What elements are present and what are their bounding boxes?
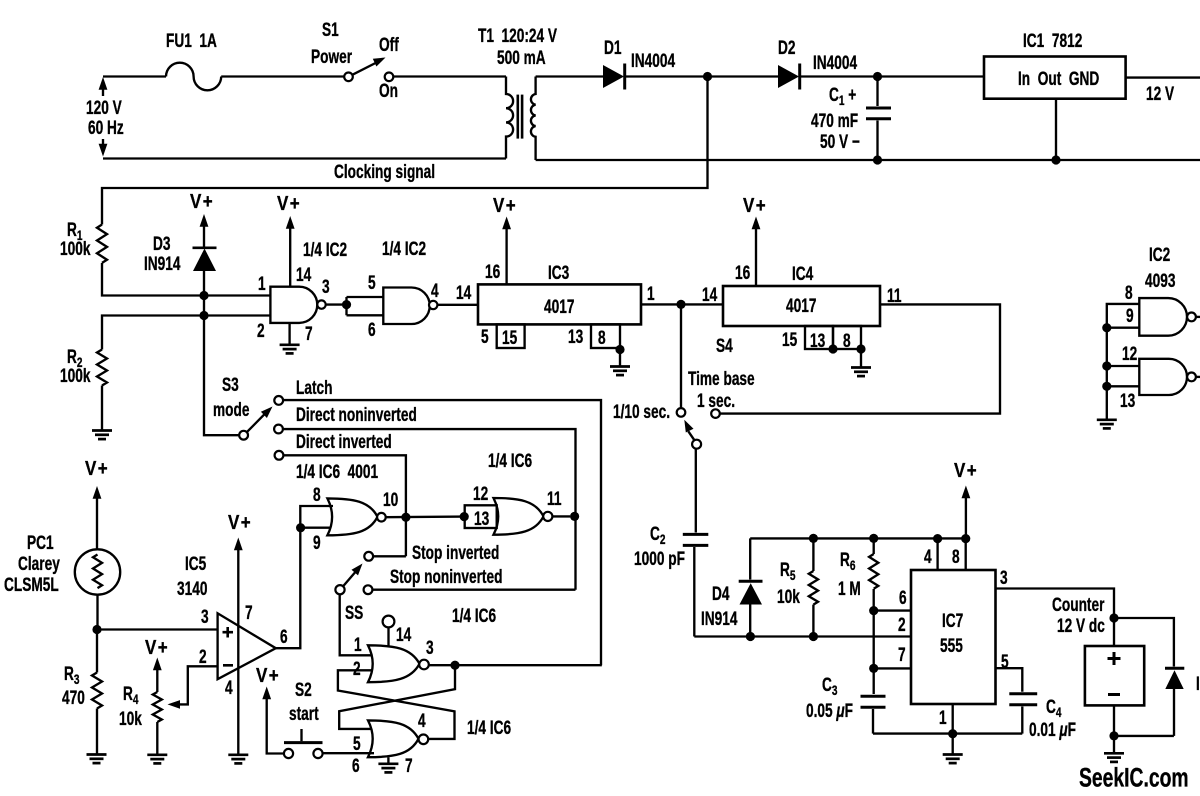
svg-text:3: 3 — [1000, 567, 1008, 589]
ground NAND1 pin7 — [280, 323, 300, 354]
node pin3 — [92, 625, 101, 634]
ground IC7 pin1 — [943, 755, 963, 764]
nand gate 1/4 IC2 second — [383, 288, 437, 325]
wire D3 anode to S3 — [204, 271, 239, 435]
svg-text:4017: 4017 — [786, 295, 816, 317]
svg-text:2: 2 — [353, 658, 361, 680]
svg-text:4: 4 — [431, 280, 439, 302]
switch S4 contact 1/10 — [677, 408, 686, 417]
IC6 pins 12 13 tie box — [465, 505, 497, 528]
svg-text:2: 2 — [257, 320, 265, 342]
svg-text:IC4: IC4 — [792, 263, 814, 285]
svg-text:FU1 1A: FU1 1A — [166, 30, 217, 52]
wire IC2 input bus to ground — [1107, 304, 1140, 419]
capacitor C3 — [861, 696, 886, 733]
svg-text:470: 470 — [62, 687, 85, 709]
wire pin2 rail — [694, 635, 911, 637]
svg-text:IN914: IN914 — [701, 608, 738, 630]
svg-text:4: 4 — [225, 677, 233, 699]
node NOR2 in — [460, 512, 469, 521]
svg-text:0.01 μF: 0.01 μF — [1029, 719, 1076, 741]
node pin1 — [948, 729, 957, 738]
svg-text:11: 11 — [547, 488, 561, 510]
svg-text:4093: 4093 — [1145, 270, 1175, 292]
ground counter — [1104, 753, 1124, 762]
node IC1 gnd — [1051, 155, 1060, 164]
wire diode bottom to counter bottom — [1114, 705, 1174, 752]
svg-text:3: 3 — [201, 606, 209, 628]
wire cross couple NOR4out to NOR3 in — [338, 670, 455, 739]
IC3 4017 box — [478, 284, 641, 324]
svg-text:D1: D1 — [604, 37, 621, 59]
svg-text:7: 7 — [245, 602, 253, 624]
node NOR1 pin9 — [296, 523, 305, 532]
ground IC2 — [1097, 420, 1117, 429]
transformer T1 primary — [506, 77, 513, 159]
svg-text:Clarey: Clarey — [18, 553, 60, 575]
node counter top — [1109, 613, 1118, 622]
wire S2 to NOR4 pin6 — [323, 752, 374, 754]
node C1 bottom — [873, 155, 882, 164]
svg-text:S2: S2 — [295, 679, 312, 701]
wire pin5 to C4 — [996, 668, 1023, 692]
svg-text:14: 14 — [702, 284, 718, 306]
node IC4 pin13 — [828, 344, 837, 353]
switch SS contact stop noninverted — [364, 585, 373, 594]
switch SS lever — [343, 564, 363, 587]
wire IC1 GND stem — [1055, 99, 1057, 160]
V+ arrow IC5 pin7 through to pin4 ground — [228, 538, 248, 764]
fuse FU1 — [166, 63, 221, 91]
svg-text:CLSM5L: CLSM5L — [4, 574, 59, 596]
svg-text:IC1 7812: IC1 7812 — [1023, 30, 1082, 52]
IC4 pin 8 box — [833, 326, 861, 349]
resistor R2 — [97, 350, 107, 386]
svg-text:7: 7 — [405, 755, 413, 777]
nor gate 1/4 IC6 pins 8 9 10 — [327, 498, 385, 535]
node counter bottom — [1109, 731, 1118, 740]
svg-text:Direct noninverted: Direct noninverted — [296, 404, 417, 426]
wire R1 to NAND pin1 — [102, 263, 270, 296]
node C1 top — [873, 72, 882, 81]
transformer T1 core — [516, 95, 519, 139]
svg-text:start: start — [289, 703, 319, 725]
svg-text:V +: V + — [85, 457, 108, 480]
wire pin8 stem — [965, 539, 967, 570]
IC3 pins 5 15 box — [497, 324, 525, 348]
node IC3 out — [676, 300, 685, 309]
node pin8 — [961, 534, 970, 543]
wire clocking signal — [102, 77, 708, 225]
wire opamp out to NOR1 inputs — [276, 506, 333, 648]
svg-text:D3: D3 — [153, 233, 170, 255]
photocell PC1 — [75, 549, 120, 594]
regulator IC1 7812 box — [984, 57, 1126, 99]
svg-text:S4: S4 — [716, 335, 733, 357]
switch S4 contact 1sec — [711, 409, 720, 418]
switch S3 contact direct noninverted — [274, 425, 283, 434]
svg-text:8: 8 — [1125, 282, 1133, 304]
ground R4 — [147, 755, 167, 764]
svg-text:On: On — [379, 80, 398, 102]
wire direct inverted line — [283, 455, 406, 556]
svg-text:IC2: IC2 — [1149, 244, 1170, 266]
capacitor C2 — [683, 449, 709, 637]
svg-text:Latch: Latch — [296, 377, 332, 399]
svg-text:In Out GND: In Out GND — [1018, 68, 1099, 90]
node D3 pin2 row — [199, 311, 208, 320]
svg-text:1/4 IC6: 1/4 IC6 — [488, 450, 532, 472]
svg-text:8: 8 — [843, 330, 851, 352]
svg-text:PC1: PC1 — [27, 532, 54, 554]
svg-text:1 M: 1 M — [838, 578, 861, 600]
opamp IC5 3140 — [218, 613, 276, 679]
svg-text:1: 1 — [258, 273, 266, 295]
node R6 top — [869, 534, 878, 543]
node IC4 pin8 — [856, 344, 865, 353]
ground R2 — [92, 431, 112, 440]
node pin7 — [869, 664, 878, 673]
switch SS pole — [335, 585, 344, 594]
wire to 1/10 sec contact — [680, 304, 682, 408]
wire fuse to S1 — [221, 75, 344, 77]
svg-text:14: 14 — [396, 624, 412, 646]
V+ arrow PC1 — [93, 486, 102, 550]
svg-text:5: 5 — [481, 326, 489, 348]
IC4 pins 15 13 box — [805, 326, 833, 349]
svg-text:IC3: IC3 — [548, 262, 569, 284]
switch S1 lever — [353, 63, 377, 75]
wire D2 to IC1 — [800, 75, 984, 77]
svg-text:D2: D2 — [778, 37, 795, 59]
svg-text:Time base: Time base — [688, 368, 755, 390]
svg-text:13: 13 — [810, 330, 825, 352]
svg-text:5: 5 — [353, 733, 361, 755]
wire IC4 pin11 feedback to 1 sec contact — [720, 304, 1000, 413]
svg-text:11: 11 — [887, 285, 901, 307]
svg-text:Power: Power — [311, 46, 352, 68]
svg-text:120 V: 120 V — [86, 97, 122, 119]
svg-text:1: 1 — [939, 707, 947, 729]
wire NAND1 out — [326, 303, 342, 305]
svg-text:500 mA: 500 mA — [497, 47, 546, 69]
wire NOR1 out to NOR2 in — [386, 515, 465, 518]
svg-text:4: 4 — [924, 546, 932, 568]
svg-text:6: 6 — [352, 755, 360, 777]
svg-text:16: 16 — [735, 262, 750, 284]
svg-text:mode: mode — [213, 399, 249, 421]
wire R2 to ground — [101, 386, 103, 431]
svg-text:13: 13 — [1120, 390, 1135, 412]
wire pin2 row to R2 — [102, 316, 270, 350]
wire primary bottom — [103, 157, 506, 159]
wire NOR3 out to latch vertical — [429, 664, 602, 666]
svg-text:6: 6 — [368, 319, 376, 341]
diode D1 IN4004 — [603, 64, 625, 90]
nor gate 1/4 IC6 pins 12 13 11 — [494, 498, 553, 535]
svg-text:9: 9 — [1126, 305, 1134, 327]
wire counter top to diode — [1114, 618, 1174, 667]
svg-text:12 V dc: 12 V dc — [1057, 615, 1105, 637]
svg-text:3140: 3140 — [177, 578, 207, 600]
wire SS pole to NOR3 pin1 — [340, 594, 372, 655]
ground IC4 — [851, 349, 871, 376]
wire direct noninverted line — [283, 429, 576, 590]
diode D3 IN914 — [193, 248, 217, 271]
svg-text:3: 3 — [426, 637, 434, 659]
potentiometer R4 — [153, 692, 162, 754]
switch S3 contact direct inverted — [275, 451, 284, 460]
svg-text:IN914: IN914 — [144, 253, 181, 275]
svg-text:V +: V + — [277, 192, 300, 215]
svg-text:12: 12 — [473, 483, 488, 505]
svg-text:IN4004: IN4004 — [631, 50, 676, 72]
svg-text:IC7: IC7 — [942, 610, 963, 632]
svg-text:7: 7 — [898, 644, 906, 666]
svg-text:V +: V + — [954, 459, 977, 482]
svg-text:IC5: IC5 — [185, 553, 206, 575]
diode D2 IN4004 — [778, 64, 800, 90]
node NAND1 out — [342, 300, 351, 309]
svg-text:5: 5 — [368, 272, 376, 294]
svg-text:14: 14 — [296, 264, 312, 286]
svg-text:1/4 IC6: 1/4 IC6 — [452, 605, 496, 627]
ground R3 — [87, 755, 107, 764]
svg-text:9: 9 — [313, 532, 321, 554]
V+ arrow NAND1 pin14 — [286, 216, 295, 287]
wire fork to NAND2 inputs — [347, 297, 384, 315]
switch SS contact stop inverted — [364, 552, 373, 561]
ground rail — [536, 159, 1200, 161]
svg-text:555: 555 — [940, 635, 963, 657]
wire pin4 stem — [936, 539, 938, 570]
120V source arrows — [99, 77, 108, 157]
svg-text:D4: D4 — [712, 583, 730, 605]
svg-text:V +: V + — [743, 194, 766, 217]
svg-text:13: 13 — [474, 508, 489, 530]
svg-text:12 V: 12 V — [1146, 83, 1174, 105]
svg-text:3: 3 — [322, 276, 330, 298]
resistor R6 — [869, 538, 878, 694]
switch S4 pole — [692, 440, 701, 449]
resistor R1 — [97, 225, 107, 263]
wire IC3 out pin1 to IC4 pin14 — [641, 303, 723, 305]
nand gate IC2 pins 12 13 — [1139, 359, 1196, 395]
nand gate 1/4 IC2 first — [270, 287, 325, 323]
svg-text:15: 15 — [502, 327, 517, 349]
svg-text:12: 12 — [1122, 343, 1137, 365]
wire stop noninverted — [372, 589, 575, 591]
svg-text:Direct inverted: Direct inverted — [296, 431, 392, 453]
svg-text:10: 10 — [383, 489, 398, 511]
svg-text:S3: S3 — [222, 374, 239, 396]
diode D4 IN914 — [739, 538, 763, 636]
svg-text:6: 6 — [899, 587, 907, 609]
svg-text:14: 14 — [456, 282, 472, 304]
wire stop inverted — [373, 555, 406, 557]
svg-text:7: 7 — [305, 323, 313, 345]
V+ arrow IC7 — [962, 486, 971, 539]
switch S1 contact left — [344, 73, 353, 82]
IC4 4017 box — [723, 286, 880, 326]
wire secondary top to D1 — [536, 75, 604, 77]
node D3 pin1 row — [199, 291, 208, 300]
resistor R3 — [92, 630, 102, 755]
svg-text:T1 120:24 V: T1 120:24 V — [478, 25, 557, 47]
resistor R5 — [809, 538, 818, 636]
svg-text:16: 16 — [485, 261, 500, 283]
svg-text:50 V −: 50 V − — [820, 131, 860, 153]
wire pin1 rail — [873, 732, 1022, 734]
svg-text:Stop noninverted: Stop noninverted — [390, 566, 502, 588]
switch S3 contact Latch — [274, 396, 283, 405]
svg-text:60 Hz: 60 Hz — [88, 117, 124, 139]
IC3 pins 13 8 box — [591, 324, 620, 348]
IC6 pin14 contact circle — [383, 616, 395, 647]
R4 wiper arrow to opamp pin2 — [168, 666, 218, 708]
svg-text:1: 1 — [647, 283, 655, 305]
transformer T1 secondary — [531, 77, 536, 161]
wire D1 to D2 — [625, 75, 779, 77]
svg-text:2: 2 — [199, 646, 207, 668]
svg-text:Clocking signal: Clocking signal — [334, 161, 435, 183]
wire NAND2 out to IC3 — [437, 304, 478, 306]
node R5 bottom — [809, 632, 818, 641]
svg-text:8: 8 — [313, 484, 321, 506]
svg-text:V +: V + — [256, 664, 279, 687]
svg-text:0.05 μF: 0.05 μF — [806, 700, 853, 722]
svg-text:1/4 IC6: 1/4 IC6 — [467, 717, 511, 739]
node NOR3 out — [450, 661, 459, 670]
wire top left to fuse — [103, 75, 166, 77]
wire pin6 — [874, 609, 911, 611]
node NOR1 out — [401, 513, 410, 522]
V+ arrow IC3 pin16 — [502, 217, 511, 285]
svg-text:S1: S1 — [322, 19, 339, 41]
node D4 bottom — [746, 632, 755, 641]
svg-text:1/4 IC2: 1/4 IC2 — [303, 239, 347, 261]
svg-text:8: 8 — [952, 546, 960, 568]
svg-text:1000 pF: 1000 pF — [634, 548, 685, 570]
node after D1 — [703, 72, 712, 81]
wire cross couple NOR3out to NOR4 in — [339, 665, 455, 729]
wire IC1 out 12V — [1126, 76, 1200, 78]
wire PC1 to opamp pin3 — [97, 595, 218, 630]
diode D5 IN4004 — [1165, 668, 1184, 736]
ground NOR4 pin7 — [378, 757, 398, 772]
svg-text:6: 6 — [280, 626, 288, 648]
svg-text:2: 2 — [898, 614, 906, 636]
V+ arrow R4 — [153, 658, 162, 693]
svg-text:470 mF: 470 mF — [811, 110, 858, 132]
V+ arrow S2 — [262, 687, 283, 754]
svg-text:5: 5 — [1001, 651, 1009, 673]
switch S4 lever — [684, 420, 694, 440]
svg-text:8: 8 — [598, 327, 606, 349]
wire pin1 stem — [952, 704, 954, 754]
svg-text:4017: 4017 — [544, 296, 574, 318]
svg-text:SeekIC.com: SeekIC.com — [1079, 763, 1189, 793]
svg-text:Stop inverted: Stop inverted — [412, 542, 499, 564]
node IC2 pin12 — [1102, 361, 1111, 370]
svg-text:1/10 sec.: 1/10 sec. — [613, 401, 670, 423]
node IC3 pin8 gnd — [615, 345, 624, 354]
svg-text:1/4 IC6 4001: 1/4 IC6 4001 — [296, 461, 378, 483]
svg-text:IN4004: IN4004 — [813, 52, 858, 74]
wire latch line — [283, 400, 601, 665]
timer IC7 555 box — [911, 570, 996, 704]
wire IC2 gate B out — [1196, 376, 1200, 378]
svg-text:10k: 10k — [777, 586, 800, 608]
svg-text:V +: V + — [493, 194, 516, 217]
ground IC3 — [610, 348, 630, 375]
svg-text:V +: V + — [228, 511, 251, 534]
nand gate IC2 pins 8 9 — [1139, 298, 1196, 336]
svg-text:10k: 10k — [119, 708, 142, 730]
node pin6 — [869, 606, 878, 615]
wire pin3 to counter — [996, 589, 1115, 647]
svg-text:Off: Off — [379, 34, 399, 56]
wire NOR2 out — [552, 515, 570, 517]
node pin4 — [933, 534, 942, 543]
wire S1 to T1 — [393, 75, 506, 77]
capacitor C4 — [1009, 694, 1037, 734]
svg-text:1 sec.: 1 sec. — [697, 390, 735, 412]
svg-text:V +: V + — [145, 636, 168, 659]
V+ arrow IC4 pin16 — [752, 217, 761, 287]
switch S1 contact right — [385, 73, 394, 82]
svg-text:13: 13 — [568, 326, 583, 348]
wire pin7 — [874, 667, 911, 669]
svg-text:Counter: Counter — [1052, 594, 1105, 616]
node IC2 pin9 — [1102, 323, 1111, 332]
svg-text:V +: V + — [190, 190, 213, 213]
svg-text:15: 15 — [782, 329, 797, 351]
nor gate 1/4 IC6 pins 1 2 3 latch top — [368, 645, 429, 682]
node NOR2 out — [570, 512, 579, 521]
svg-text:IN4004: IN4004 — [1196, 673, 1200, 695]
counter box — [1085, 646, 1144, 705]
svg-text:SS: SS — [345, 602, 363, 624]
svg-text:1: 1 — [354, 634, 362, 656]
switch S3 pole — [239, 431, 248, 440]
svg-text:1/4 IC2: 1/4 IC2 — [382, 238, 426, 260]
nor gate 1/4 IC6 pins 5 6 4 latch bottom — [368, 720, 428, 757]
svg-text:100k: 100k — [60, 365, 91, 387]
wire IC2 gate A out — [1196, 316, 1200, 318]
V+ arrow D3 — [200, 214, 209, 247]
pushbutton S2 start — [284, 729, 323, 758]
wire V+ top rail — [750, 537, 966, 539]
switch S3 lever — [247, 407, 273, 433]
node R5 top — [809, 534, 818, 543]
capacitor C1 — [866, 77, 891, 161]
svg-text:4: 4 — [418, 710, 426, 732]
svg-text:100k: 100k — [60, 238, 91, 260]
node IC2 pin13 — [1102, 382, 1111, 391]
